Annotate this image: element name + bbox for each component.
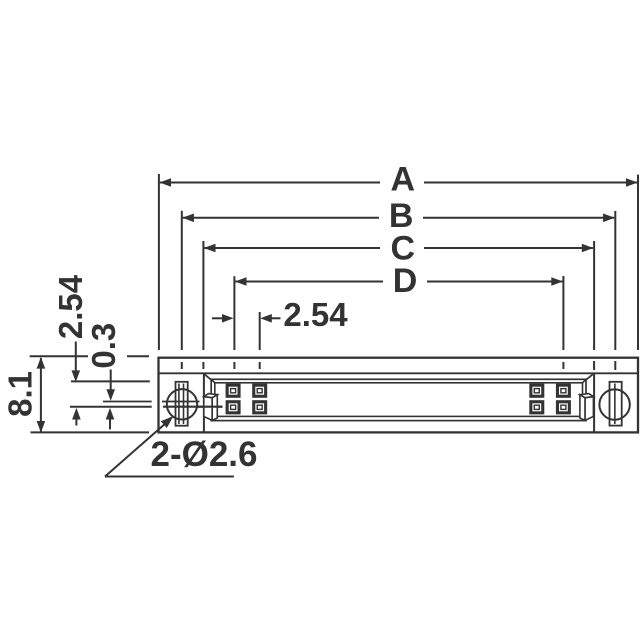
dimension 2.54 pitch right arrow pointing left <box>271 317 281 319</box>
body outline <box>159 358 639 433</box>
body right divider <box>593 373 595 432</box>
extension line C left dash <box>202 362 204 369</box>
contact pin col2 row1 <box>252 384 267 398</box>
left slot rect <box>176 382 188 426</box>
extension line 8.1 bottom <box>31 431 150 433</box>
dimension B line <box>183 217 614 219</box>
dimension B left arrow <box>182 214 194 223</box>
extension line 0.3 lower / centerline <box>70 406 152 408</box>
dimension 0.3 up arrow <box>109 419 111 430</box>
extension line C right <box>593 241 595 350</box>
extension line A right <box>637 175 639 350</box>
contact pin col1 row2 <box>226 400 241 414</box>
cavity entry diagonal left <box>205 374 212 380</box>
dimension D line <box>235 281 562 283</box>
body flange line <box>159 372 639 374</box>
right key stub <box>592 395 594 397</box>
leader arrowhead <box>161 416 174 428</box>
extension line B left dash <box>181 362 183 369</box>
svg-text:A: A <box>391 161 416 199</box>
dimension A right arrow <box>626 178 638 187</box>
label B <box>379 203 423 233</box>
dimension D left arrow <box>235 277 247 286</box>
svg-text:D: D <box>393 262 418 300</box>
extension line D right <box>562 276 564 350</box>
dimension D right arrow <box>551 277 563 286</box>
extension line D left <box>233 276 235 350</box>
dimension 0.3 down arrow <box>110 370 112 391</box>
extension line B left <box>181 211 183 350</box>
svg-text:2-Ø2.6: 2-Ø2.6 <box>151 435 258 474</box>
label C <box>380 233 424 263</box>
dimension C line <box>204 247 593 249</box>
body left divider <box>203 373 205 432</box>
dimension 8.1 vertical line with arrows <box>40 358 42 432</box>
dimension 2.54 left down arrow <box>75 342 77 373</box>
contact pin col1 row1 <box>226 384 241 398</box>
extension line C left <box>202 241 204 350</box>
contact pin col3 row2 <box>529 400 544 414</box>
cavity corner diagonal bottom-left <box>211 416 215 420</box>
extension line 0.3 upper <box>103 401 152 403</box>
label D <box>383 266 427 296</box>
right slot center line <box>614 384 616 425</box>
svg-text:2.54: 2.54 <box>52 274 89 339</box>
right polarization key <box>580 394 594 421</box>
left mounting hole circle <box>167 389 197 419</box>
dimension 2.54 pitch left arrow pointing right <box>212 317 223 319</box>
extension line 2.54 pitch right <box>259 312 261 350</box>
cavity corner diagonal bottom-right <box>583 416 587 420</box>
dimension A line <box>160 182 637 184</box>
dimension A left arrow <box>159 178 171 187</box>
cavity outer rect <box>211 379 586 420</box>
cavity entry diagonal right <box>586 374 593 380</box>
extension line A left <box>158 174 160 350</box>
left centerline over key <box>196 406 223 408</box>
extension line slot top left <box>71 380 150 382</box>
label A <box>380 167 424 197</box>
extension line C right dash <box>593 361 595 370</box>
left circle upper line <box>162 401 200 403</box>
svg-text:0.3: 0.3 <box>85 323 122 369</box>
leader line for 2-dia-2.6 <box>105 423 166 477</box>
dimension C right arrow <box>582 244 594 253</box>
cavity corner diagonal top-left <box>211 379 215 383</box>
left polarization key <box>204 394 218 421</box>
dimension 2.54 left up arrow <box>75 418 77 426</box>
dimension C left arrow <box>204 244 216 253</box>
left slot inner line 2 <box>183 384 185 425</box>
extension line B right dash <box>614 361 616 370</box>
extension line D right dash <box>562 362 564 369</box>
left slot inner line 1 <box>178 384 180 425</box>
svg-text:2.54: 2.54 <box>283 296 348 333</box>
right mounting hole circle <box>599 389 629 419</box>
cavity inner rect <box>215 383 583 417</box>
dimension B right arrow <box>603 214 615 223</box>
cavity corner diagonal top-right <box>583 379 587 383</box>
left centerline in body <box>163 406 223 408</box>
contact pin col3 row1 <box>529 384 544 398</box>
contact pin col4 row2 <box>556 400 571 414</box>
extension line 2.54 pitch right dash <box>259 362 261 369</box>
extension line D left dash <box>233 362 235 369</box>
extension line B right <box>614 211 616 350</box>
contact pin col2 row2 <box>252 400 267 414</box>
svg-text:8.1: 8.1 <box>2 371 39 417</box>
contact pin col4 row1 <box>556 384 571 398</box>
extension line 8.1 top <box>30 355 88 357</box>
right slot rect <box>610 382 622 426</box>
